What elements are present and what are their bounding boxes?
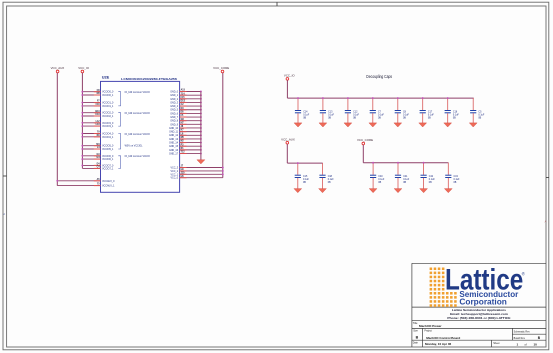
op IC U2E box <box>101 81 180 192</box>
junction on decoupling rail <box>372 97 374 99</box>
svg-text:0B: 0B <box>478 118 481 120</box>
svg-text:C13: C13 <box>328 111 333 113</box>
pin stub GND_9 <box>180 123 187 125</box>
ground symbol under C41 <box>394 189 402 193</box>
svg-text:T12: T12 <box>181 152 186 154</box>
svg-text:VCCIO7_0: VCCIO7_0 <box>102 165 114 167</box>
title block outline <box>412 263 546 347</box>
junction on GND bus <box>200 142 202 144</box>
wire pin GND_9 to GND bus <box>180 123 201 125</box>
ground symbol under C40 <box>369 189 377 193</box>
junction on GND bus <box>200 116 202 118</box>
svg-text:LCMXO640/1200/2280-FTBGA256: LCMXO640/1200/2280-FTBGA256 <box>121 77 177 81</box>
node VCC_CORE decoupling rail <box>363 162 448 164</box>
zone tick top center <box>276 2 278 6</box>
pin stub VCCIO2_1 <box>94 115 101 117</box>
svg-text:VCC_AUX: VCC_AUX <box>281 137 295 141</box>
svg-text:0B: 0B <box>378 182 381 184</box>
svg-text:Decoupling Caps: Decoupling Caps <box>366 74 392 79</box>
ground symbol under C14 <box>294 123 302 127</box>
wire pin GND_6 to GND bus <box>180 112 201 114</box>
junction on VCC_IO rail <box>81 136 83 138</box>
wire C40 to ground <box>372 178 374 189</box>
svg-text:VCC_3: VCC_3 <box>170 167 178 169</box>
wire VCC_IO vertical rail <box>81 73 83 169</box>
ground symbol under C13 <box>319 123 327 127</box>
svg-text:VCCIO3_1: VCCIO3_1 <box>102 126 114 128</box>
junction on VCC_AUX rail <box>297 162 299 164</box>
svg-text:C15: C15 <box>303 176 308 178</box>
wire VCC_IO to pin VCCIO1_0 <box>82 102 100 104</box>
svg-text:IO_b40 common VCCIO: IO_b40 common VCCIO <box>125 92 150 94</box>
svg-text:VCCIO6_1: VCCIO6_1 <box>102 159 114 161</box>
power flag VCC_IO <box>78 66 90 73</box>
svg-text:GND_10: GND_10 <box>169 128 179 130</box>
junction on decoupling rail <box>297 97 299 99</box>
wire rail to C7 <box>372 98 374 110</box>
ground symbol under C17 <box>419 123 427 127</box>
wire pin GND_14 to GND bus <box>180 142 201 144</box>
ground symbol under C42 <box>420 189 428 193</box>
wire rail to C43 <box>447 163 449 175</box>
svg-text:Monday, 10 Apr 06: Monday, 10 Apr 06 <box>425 342 452 346</box>
power flag VCC_AUX <box>281 137 295 144</box>
junction on VCC_AUX rail <box>56 180 58 182</box>
svg-text:0.1uF: 0.1uF <box>453 114 460 116</box>
capacitor C13 0.1uF <box>320 111 335 120</box>
capacitor C14 0.1uF <box>295 111 310 120</box>
pin stub GND_7 <box>180 116 187 118</box>
pin stub VCCIO2_0 <box>94 112 101 114</box>
svg-text:VCCIO0_0: VCCIO0_0 <box>102 92 114 94</box>
wire C13 to ground <box>322 113 324 123</box>
power flag VCC_CORE <box>213 66 229 73</box>
wire VCC_IO to pin VCCIO5_0 <box>82 145 100 147</box>
pin stub GND_14 <box>180 142 187 144</box>
svg-text:A: A <box>3 212 5 216</box>
wire rail to C40 <box>372 163 374 175</box>
wire C42 to ground <box>423 178 425 189</box>
bank group bracket <box>118 113 120 126</box>
wire rail to C42 <box>423 163 425 175</box>
junction on VCC_CORE rail <box>222 170 224 172</box>
wire VCC_IO to pin VCCIO6_0 <box>82 155 100 157</box>
svg-text:Schematic Rev: Schematic Rev <box>514 331 531 334</box>
junction on GND bus <box>200 91 202 93</box>
wire C12 to ground <box>347 113 349 123</box>
pin stub GND_1 <box>180 94 187 96</box>
capacitor C15 0.1uF <box>295 175 310 184</box>
svg-text:GND_13: GND_13 <box>169 139 179 141</box>
wire VCC_IO to pin VCCIO7_0 <box>82 164 100 166</box>
wire VCC_IO flag to rail <box>286 80 288 98</box>
junction on GND bus <box>200 112 202 114</box>
junction on VCC_IO rail <box>81 158 83 160</box>
junction on VCC_IO rail <box>81 91 83 93</box>
svg-text:B13: B13 <box>95 111 100 113</box>
svg-text:Corporation: Corporation <box>459 298 507 307</box>
junction on GND bus <box>200 134 202 136</box>
svg-text:0.1uF: 0.1uF <box>454 179 461 181</box>
capacitor C7 0.1uF <box>370 111 385 120</box>
wire VCC_IO to pin VCCIO2_0 <box>82 112 100 114</box>
svg-text:VCCIO2_1: VCCIO2_1 <box>102 116 114 118</box>
wire pin VCC_3 to VCC_CORE <box>180 167 223 169</box>
pin stub VCCAUX_0 <box>94 180 101 182</box>
svg-text:Title: Title <box>413 322 418 325</box>
svg-text:VCCIO7_1: VCCIO7_1 <box>102 168 114 170</box>
ground symbol under C16 <box>444 123 452 127</box>
svg-text:Board Rev: Board Rev <box>514 337 526 340</box>
junction on VCC_IO rail <box>81 112 83 114</box>
svg-text:A: A <box>545 220 547 224</box>
junction on GND bus <box>200 138 202 140</box>
bank group bracket <box>118 92 120 106</box>
capacitor C40 0.1uF <box>370 175 385 184</box>
ground symbol under C43 <box>444 189 452 193</box>
pin stub GND_15 <box>180 145 187 147</box>
wire pin GND_16 to GND bus <box>180 149 201 151</box>
svg-text:Project: Project <box>424 330 432 333</box>
svg-text:0B: 0B <box>428 118 431 120</box>
junction on decoupling rail <box>422 97 424 99</box>
svg-text:VCCIO4_0: VCCIO4_0 <box>102 133 114 135</box>
pin stub VCCIO6_1 <box>94 158 101 160</box>
wire C18 to ground <box>322 178 324 189</box>
wire rail to C8 <box>397 98 399 110</box>
junction on decoupling rail <box>397 97 399 99</box>
junction on VCC_CORE rail <box>372 162 374 164</box>
ground symbol under C8 <box>394 123 402 127</box>
junction on VCC_IO rail <box>81 115 83 117</box>
wire rail to C17 <box>422 98 424 110</box>
capacitor C17 0.1uF <box>420 111 435 120</box>
junction on GND bus <box>200 153 202 155</box>
junction on VCC_IO rail <box>81 164 83 166</box>
svg-text:MachXO Power: MachXO Power <box>419 324 442 328</box>
svg-text:VCCIO6_0: VCCIO6_0 <box>102 156 114 158</box>
pin stub VCCIO7_0 <box>94 164 101 166</box>
zone tick right center <box>546 177 549 179</box>
svg-text:U2E: U2E <box>102 74 110 79</box>
wire rail to C13 <box>322 98 324 110</box>
svg-text:F15: F15 <box>181 97 186 99</box>
svg-text:VCCAUX_1: VCCAUX_1 <box>102 185 115 188</box>
wire C14 to ground <box>297 113 299 123</box>
zone tick left center <box>3 175 7 177</box>
svg-text:VCCIO0_1: VCCIO0_1 <box>102 95 114 97</box>
svg-text:0.1uF: 0.1uF <box>403 179 410 181</box>
junction on GND bus <box>200 101 202 103</box>
wire pin GND_3 to GND bus <box>180 101 201 103</box>
junction on GND bus <box>200 127 202 129</box>
junction on VCC_IO rail <box>81 122 83 124</box>
svg-text:0B: 0B <box>353 118 356 120</box>
svg-text:Sheet: Sheet <box>493 342 500 345</box>
svg-text:GND_16: GND_16 <box>169 150 179 152</box>
svg-text:0B: 0B <box>429 182 432 184</box>
pin stub GND_13 <box>180 138 187 140</box>
svg-text:L12: L12 <box>96 121 101 123</box>
wire pin GND_5 to GND bus <box>180 109 201 111</box>
svg-text:C43: C43 <box>454 176 459 178</box>
ground symbol for GND bus <box>197 160 205 164</box>
svg-text:0B: 0B <box>328 118 331 120</box>
svg-text:GND_7: GND_7 <box>170 117 178 119</box>
wire pin GND_8 to GND bus <box>180 120 201 122</box>
svg-text:VCC_0: VCC_0 <box>170 178 178 180</box>
svg-text:0.1uF: 0.1uF <box>303 114 310 116</box>
wire pin GND_12 to GND bus <box>180 134 201 136</box>
svg-text:0.1uF: 0.1uF <box>378 114 385 116</box>
pin stub GND_10 <box>180 127 187 129</box>
svg-text:VCCIO5_0: VCCIO5_0 <box>102 146 114 148</box>
wire VCC_IO to pin VCCIO3_1 <box>82 125 100 127</box>
pin stub VCCIO1_1 <box>94 105 101 107</box>
ground symbol under C12 <box>344 123 352 127</box>
ground symbol under C15 <box>294 189 302 193</box>
svg-text:C16: C16 <box>453 111 458 113</box>
svg-text:GND_9: GND_9 <box>170 124 178 126</box>
svg-text:0.1uF: 0.1uF <box>328 179 335 181</box>
pin stub GND_11 <box>180 131 187 133</box>
node VCC_AUX decoupling rail <box>287 162 322 164</box>
wire C8 to ground <box>397 113 399 123</box>
capacitor C41 0.1uF <box>395 175 410 184</box>
junction on VCC_IO rail <box>81 133 83 135</box>
wire rail to C5 <box>472 98 474 110</box>
wire C41 to ground <box>397 178 399 189</box>
svg-text:C42: C42 <box>429 176 434 178</box>
wire rail to C41 <box>397 163 399 175</box>
wire pin VCC_2 to VCC_CORE <box>180 170 223 172</box>
pin stub VCCIO3_0 <box>94 122 101 124</box>
node VCC_IO decoupling rail <box>287 97 473 99</box>
svg-text:B: B <box>416 336 419 340</box>
junction on decoupling rail <box>322 97 324 99</box>
svg-text:C40: C40 <box>378 176 383 178</box>
svg-text:VCCIO3_0: VCCIO3_0 <box>102 123 114 125</box>
wire C17 to ground <box>422 113 424 123</box>
ground symbol under C5 <box>469 123 477 127</box>
wire VCC_AUX to pin VCCAUX_0 <box>57 180 100 182</box>
svg-text:0.1uF: 0.1uF <box>328 114 335 116</box>
power flag VCC_IO <box>284 74 296 81</box>
svg-text:IO_b40 common VCCIO: IO_b40 common VCCIO <box>125 156 150 158</box>
svg-text:0B: 0B <box>403 118 406 120</box>
pin stub VCCIO4_0 <box>94 133 101 135</box>
pin stub VCCIO4_1 <box>94 136 101 138</box>
pin stub GND_2 <box>180 98 187 100</box>
junction on GND bus <box>200 149 202 151</box>
wire C16 to ground <box>447 113 449 123</box>
wire VCC_IO to pin VCCIO4_0 <box>82 133 100 135</box>
capacitor C18 0.1uF <box>319 175 334 184</box>
pin stub GND_12 <box>180 134 187 136</box>
wire VCC_AUX vertical rail <box>56 73 58 186</box>
junction on VCC_IO rail <box>81 145 83 147</box>
svg-text:VCC_CORE: VCC_CORE <box>357 138 373 142</box>
junction on GND bus <box>200 94 202 96</box>
svg-text:D13: D13 <box>181 101 186 103</box>
wire rail to C15 <box>297 163 299 175</box>
wire VCC_IO to pin VCCIO0_0 <box>82 91 100 93</box>
wire VCC_IO to pin VCCIO2_1 <box>82 115 100 117</box>
svg-text:0.1uF: 0.1uF <box>429 179 436 181</box>
bank group bracket <box>118 134 120 150</box>
pin stub GND_0 <box>180 91 187 93</box>
pin stub GND_6 <box>180 112 187 114</box>
svg-text:GND_5: GND_5 <box>170 110 178 112</box>
junction on VCC_IO rail <box>81 105 83 107</box>
svg-text:GND_4: GND_4 <box>170 106 178 108</box>
svg-text:Size: Size <box>413 329 418 332</box>
junction on decoupling rail <box>447 97 449 99</box>
junction on GND bus <box>200 109 202 111</box>
Lattice logo dot grid <box>430 268 457 307</box>
svg-text:0B: 0B <box>403 182 406 184</box>
svg-text:VCCIO4_1: VCCIO4_1 <box>102 137 114 139</box>
svg-text:MachXO Control Board: MachXO Control Board <box>426 336 460 340</box>
wire pin GND_4 to GND bus <box>180 105 201 107</box>
junction on GND bus <box>200 131 202 133</box>
pin stub VCCIO1_0 <box>94 102 101 104</box>
junction on GND bus <box>200 123 202 125</box>
svg-text:GND_0: GND_0 <box>170 91 178 93</box>
wire VCC_IO to pin VCCIO7_1 <box>82 167 100 169</box>
junction on VCC_IO rail <box>81 125 83 127</box>
svg-text:F10: F10 <box>96 104 101 106</box>
pin stub VCCIO5_1 <box>94 148 101 150</box>
svg-text:WSV on VCCIOL: WSV on VCCIOL <box>125 146 144 148</box>
svg-text:0.1uF: 0.1uF <box>403 114 410 116</box>
svg-text:GND_8: GND_8 <box>170 121 178 123</box>
capacitor C43 0.1uF <box>445 175 460 184</box>
svg-text:0B: 0B <box>303 182 306 184</box>
svg-text:VCC_1: VCC_1 <box>170 174 178 176</box>
svg-text:0.1uF: 0.1uF <box>378 179 385 181</box>
svg-text:0.1uF: 0.1uF <box>478 114 485 116</box>
capacitor C12 0.1uF <box>345 111 360 120</box>
svg-text:10: 10 <box>534 342 538 346</box>
svg-text:GND_11: GND_11 <box>169 132 179 134</box>
svg-text:VCCIO2_0: VCCIO2_0 <box>102 113 114 115</box>
wire C43 to ground <box>447 178 449 189</box>
capacitor C42 0.1uF <box>421 175 436 184</box>
svg-text:0.1uF: 0.1uF <box>428 114 435 116</box>
svg-text:GND_14: GND_14 <box>169 143 179 145</box>
wire pin GND_7 to GND bus <box>180 116 201 118</box>
wire pin GND_11 to GND bus <box>180 131 201 133</box>
pin stub GND_17 <box>180 153 187 155</box>
wire VCC_AUX to pin VCCAUX_1 <box>57 185 100 187</box>
pin stub VCCIO6_0 <box>94 155 101 157</box>
GND bus vertical <box>200 92 202 160</box>
svg-text:0B: 0B <box>454 182 457 184</box>
wire VCC_IO to pin VCCIO3_0 <box>82 122 100 124</box>
junction on decoupling rail <box>347 97 349 99</box>
wire VCC_IO to pin VCCIO5_1 <box>82 148 100 150</box>
svg-text:GND_12: GND_12 <box>169 135 179 137</box>
wire rail to C16 <box>447 98 449 110</box>
svg-text:GND_15: GND_15 <box>169 146 179 148</box>
svg-text:0B: 0B <box>303 118 306 120</box>
junction on GND bus <box>200 105 202 107</box>
wire pin GND_17 to GND bus <box>180 153 201 155</box>
power flag VCC_CORE <box>357 138 373 145</box>
svg-text:0.1uF: 0.1uF <box>353 114 360 116</box>
svg-text:C18: C18 <box>328 176 333 178</box>
pin stub GND_3 <box>180 101 187 103</box>
pin stub VCC_0 <box>180 177 187 179</box>
svg-text:0.1uF: 0.1uF <box>303 179 310 181</box>
wire rail to C18 <box>322 163 324 175</box>
svg-text:GND_1: GND_1 <box>170 95 178 97</box>
wire pin VCC_0 to VCC_CORE <box>180 177 223 179</box>
junction on VCC_IO rail <box>81 148 83 150</box>
wire VCC_CORE flag to rail <box>362 145 364 163</box>
svg-text:VCCAUX_0: VCCAUX_0 <box>102 180 115 183</box>
svg-text:C17: C17 <box>428 111 433 113</box>
svg-text:VCCIO5_1: VCCIO5_1 <box>102 149 114 151</box>
wire VCC_IO to pin VCCIO6_1 <box>82 158 100 160</box>
pin stub VCCIO5_0 <box>94 145 101 147</box>
svg-text:0B: 0B <box>328 182 331 184</box>
wire VCC_IO to pin VCCIO1_1 <box>82 105 100 107</box>
svg-text:VCCIO1_0: VCCIO1_0 <box>102 103 114 105</box>
wire VCC_IO to pin VCCIO4_1 <box>82 136 100 138</box>
wire VCC_CORE vertical rail <box>222 73 224 178</box>
svg-text:VCC_2: VCC_2 <box>170 171 178 173</box>
svg-text:GND_3: GND_3 <box>170 102 178 104</box>
svg-text:C13: C13 <box>95 114 100 116</box>
svg-text:VCC_AUX: VCC_AUX <box>51 66 65 70</box>
pin stub VCCIO0_1 <box>94 94 101 96</box>
wire pin GND_13 to GND bus <box>180 138 201 140</box>
junction on GND bus <box>200 145 202 147</box>
svg-text:GND_6: GND_6 <box>170 113 178 115</box>
junction on VCC_IO rail <box>81 94 83 96</box>
wire pin GND_2 to GND bus <box>180 98 201 100</box>
wire rail to C14 <box>297 98 299 110</box>
wire C5 to ground <box>472 113 474 123</box>
svg-text:GND_17: GND_17 <box>169 153 179 155</box>
pin stub VCC_1 <box>180 173 187 175</box>
pin stub GND_4 <box>180 105 187 107</box>
wire pin GND_1 to GND bus <box>180 94 201 96</box>
svg-text:0B: 0B <box>378 118 381 120</box>
svg-text:VCCIO1_1: VCCIO1_1 <box>102 106 114 108</box>
pin stub VCC_3 <box>180 167 187 169</box>
junction on VCC_CORE rail <box>222 167 224 169</box>
capacitor C16 0.1uF <box>445 111 460 120</box>
pin stub GND_8 <box>180 120 187 122</box>
svg-text:C41: C41 <box>403 176 408 178</box>
pin stub VCCIO0_0 <box>94 91 101 93</box>
pin stub VCCIO7_1 <box>94 167 101 169</box>
svg-text:C14: C14 <box>303 111 308 113</box>
junction on VCC_IO rail <box>81 155 83 157</box>
ground symbol under C18 <box>319 189 327 193</box>
svg-text:C12: C12 <box>353 111 358 113</box>
wire pin GND_10 to GND bus <box>180 127 201 129</box>
wire rail to C12 <box>347 98 349 110</box>
svg-text:GND_2: GND_2 <box>170 99 178 101</box>
svg-text:T14: T14 <box>181 92 186 95</box>
svg-text:Phone: (503) 268-8001 or (800): Phone: (503) 268-8001 or (800) LATTICE <box>447 316 510 320</box>
svg-text:of: of <box>525 342 527 346</box>
svg-text:A15: A15 <box>181 89 186 92</box>
